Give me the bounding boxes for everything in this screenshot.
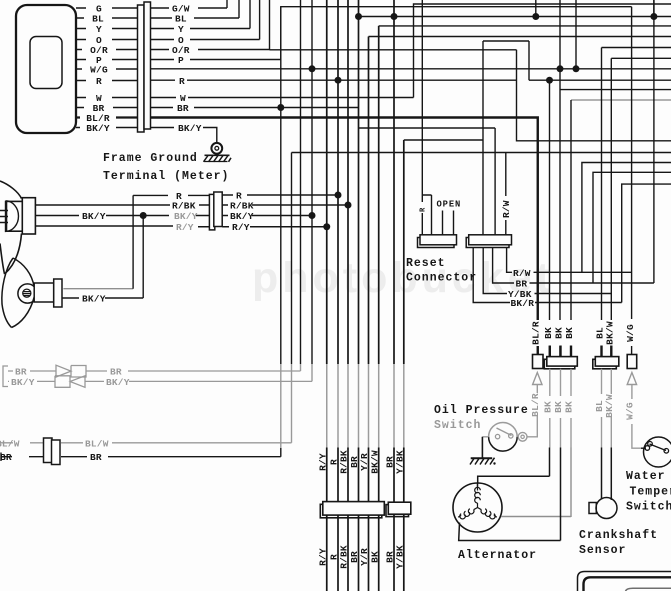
alternator wire bottom (459, 448, 561, 541)
svg-text:Terminal (Meter): Terminal (Meter) (103, 170, 229, 183)
connector J1 meter (double bar) (138, 2, 151, 132)
wire BR bottom row (1, 453, 281, 462)
gray sideways labels below connectors (530, 393, 636, 420)
svg-text:BK/Y: BK/Y (174, 211, 198, 222)
bundle column C5 Y/R x=368.5 (368, 37, 370, 365)
wire BK/Y to frame ground (151, 128, 217, 143)
junction box inner corner (626, 588, 671, 591)
bundle column C8 Y/BK x=403.8 (403, 140, 405, 364)
svg-text:BL/W: BL/W (85, 438, 109, 449)
wire W/G long row (151, 68, 671, 70)
wire O/R to riser (151, 0, 270, 50)
wire BK/Y gray row (8, 380, 55, 382)
svg-text:Y: Y (96, 24, 102, 35)
wire BR row y=107.5 (76, 107, 138, 109)
wire BK/Y headlight (35, 215, 209, 217)
wire R row y=80.5 (76, 80, 138, 82)
svg-text:OPEN: OPEN (437, 200, 462, 210)
svg-text:R/BK: R/BK (172, 201, 196, 212)
svg-text:BL: BL (175, 14, 187, 25)
diode D1 (56, 365, 86, 377)
svg-text:BK: BK (554, 327, 565, 339)
gray turn signal diode circuit (3, 365, 312, 387)
row y=184.1 riser BK/R (622, 184, 671, 302)
vertical x=653.9 (653, 0, 655, 17)
svg-text:BL/R: BL/R (530, 393, 541, 417)
turn signal connector (34, 279, 62, 307)
vertical x=312 (BK/Y riser) (311, 0, 313, 364)
svg-text:BK/W: BK/W (604, 394, 615, 418)
wire O row y=39.5 (76, 39, 138, 41)
2-pin connector BL BK/W (593, 357, 619, 369)
svg-text:Crankshaft: Crankshaft (579, 529, 658, 542)
svg-text:R/BK: R/BK (339, 450, 350, 474)
meter harness wires (left of connector) (76, 8, 138, 128)
connector pin stubs (550, 346, 612, 358)
bundle column C3 R/BK x=348 (347, 0, 349, 364)
svg-text:BK: BK (543, 327, 554, 339)
svg-text:R/BK: R/BK (230, 201, 254, 212)
gray row y=100 (571, 99, 671, 101)
svg-text:Oil Pressure: Oil Pressure (434, 404, 529, 417)
svg-text:BK/Y: BK/Y (106, 377, 130, 388)
alternator wire top to BK pin1 (478, 448, 550, 488)
wire BL/R row y=117.5 (76, 116, 138, 118)
bus row y=36.5 (369, 36, 671, 38)
wire BK/Y turn signal riser (62, 216, 144, 299)
vertical x=571 BK pin3 (570, 100, 572, 357)
vertical x=611.3 BK/W pin (611, 58, 671, 357)
bundle column C4 BR x=358.5 (358, 0, 360, 364)
wire G row y=8 (76, 7, 138, 9)
svg-text:BR: BR (90, 452, 102, 463)
svg-text:Water Se: Water Se (626, 470, 671, 483)
wire BK/Y row y=127.5 (76, 127, 138, 129)
3-pin connector BK BK BK (544, 357, 577, 369)
single connector W/G (627, 355, 637, 369)
wire R/Y headlight (35, 225, 209, 228)
svg-text:Connector: Connector (406, 272, 477, 285)
svg-text:Reset: Reset (406, 257, 446, 270)
wire R long row (151, 79, 671, 81)
wire BR gray row (8, 370, 56, 372)
svg-text:BK: BK (543, 401, 554, 413)
alternator (453, 483, 502, 532)
oil pressure switch (482, 423, 527, 459)
svg-text:Switch: Switch (434, 419, 481, 432)
reset connector open pins (443, 211, 454, 236)
6-pin connector body (320, 502, 384, 518)
headlight connector (7, 198, 36, 234)
bundle column C1 R/Y x=326.75 (327, 0, 404, 591)
svg-text:BK/Y: BK/Y (86, 123, 110, 134)
gray wire W/G below arrow (632, 385, 641, 449)
wire R/BK headlight (35, 204, 209, 206)
inline connector on BL/W BR rows (44, 438, 61, 465)
wire W row y=97.5 (76, 97, 138, 99)
wire W row riser to top (151, 4, 671, 98)
alternator wire right gray (501, 448, 571, 518)
gray wire BL/W row (0, 439, 292, 448)
gray wire BL/R down to oil switch (527, 369, 641, 448)
gray wires BK pins below connector (549, 369, 551, 448)
svg-text:R/Y: R/Y (232, 222, 250, 233)
svg-text:BL/W: BL/W (0, 438, 20, 449)
vertical x=549.5 BK pin1 (549, 80, 551, 357)
wire W/G row y=69 (76, 68, 138, 70)
2-pin connector body (386, 502, 411, 516)
junction box outer corner (578, 572, 671, 591)
wire Y to riser (151, 0, 251, 29)
crankshaft sensor (589, 448, 617, 519)
row y=152.5 (292, 152, 671, 154)
frame ground terminal symbol (204, 143, 232, 162)
svg-text:BR: BR (177, 103, 189, 114)
reset connector body 1 (418, 235, 457, 248)
bundle column C6 BK/W x=378.7 (378, 26, 380, 364)
bus row y=25.9 (379, 25, 671, 27)
svg-text:BK: BK (564, 401, 575, 413)
bundle column C2 R x=338 (337, 0, 339, 364)
svg-text:Sensor: Sensor (579, 544, 626, 557)
oil switch ground (470, 458, 495, 465)
svg-text:BK/W: BK/W (605, 321, 616, 345)
bundle sideways labels below connector (318, 545, 406, 569)
svg-text:R/Y: R/Y (318, 548, 329, 566)
wire BL/R thick to mid connector (151, 118, 538, 355)
fan wire R/W from connector2 (507, 248, 632, 273)
vertical x=300.5 (BR gray riser) (300, 0, 302, 364)
fan wire Y/BK from connector2 (483, 248, 611, 294)
wire G/W to riser (151, 0, 671, 143)
svg-text:R: R (420, 207, 428, 212)
svg-text:P: P (178, 55, 184, 66)
svg-text:W/G: W/G (625, 402, 636, 420)
row y=162.5 riser R/W (582, 163, 671, 273)
meter wire labels left column (86, 4, 110, 135)
right-side wire labels of meter connector (172, 4, 202, 135)
single connector BL/R (533, 355, 544, 369)
bundle column C7 BR x=394 (393, 0, 395, 364)
headlight reflector housing (0, 181, 22, 274)
svg-text:BL: BL (92, 14, 104, 25)
wire BR meter row (151, 107, 359, 109)
svg-text:R/BK: R/BK (339, 545, 350, 569)
svg-text:BK/Y: BK/Y (178, 123, 202, 134)
gray mating arrow BL/R (533, 373, 542, 385)
bridge wire C8 to reset connector2 (404, 41, 483, 235)
wire P riser and top run (151, 7, 632, 60)
fan wire BK/R from connector2 (473, 248, 622, 303)
svg-text:Alternator: Alternator (458, 549, 537, 562)
wire R row (35, 195, 209, 288)
wire P row y=59.5 (76, 59, 138, 61)
wire Y row y=28.5 (76, 28, 138, 30)
fan wire BR from connector2 (493, 0, 654, 283)
sideways labels above mid connectors (533, 320, 616, 346)
svg-text:BK: BK (553, 401, 564, 413)
svg-text:BK/Y: BK/Y (11, 377, 35, 388)
svg-text:BK: BK (369, 551, 380, 563)
svg-text:R: R (96, 76, 102, 87)
vertical x=631.6 W/G wire (631, 7, 633, 355)
wires right of 4-pin connector (222, 195, 348, 227)
svg-text:BR: BR (516, 279, 528, 290)
vertical stub x=576 (575, 0, 577, 69)
svg-text:BR: BR (15, 367, 27, 378)
gray wires BL and BK/W below connector (601, 369, 603, 448)
vertical stub x=535.8 (535, 0, 537, 17)
svg-text:BR: BR (0, 452, 12, 463)
bundle gray band segments (327, 364, 404, 448)
junction box middle corner (584, 577, 671, 591)
svg-text:BK/Y: BK/Y (82, 211, 106, 222)
water temperature switch (641, 437, 671, 467)
svg-text:Temperatu: Temperatu (630, 486, 671, 499)
svg-text:W/G: W/G (90, 65, 108, 76)
headlight bulb (0, 201, 18, 232)
reset connector jumper loop wire x=422.3 (422, 0, 431, 235)
svg-text:R/Y: R/Y (318, 453, 329, 471)
left bracket (3, 366, 8, 387)
svg-text:W/G: W/G (625, 324, 636, 342)
jog wire y=41 (483, 41, 529, 80)
vertical x=601.5 BL pin (602, 48, 671, 357)
svg-text:Y: Y (178, 24, 184, 35)
wire BL to riser (151, 0, 240, 18)
turn signal bulb (18, 284, 37, 303)
vertical P/BR bus x=280.8 (280, 7, 282, 457)
bridge wire C4 to reset connector2 (359, 128, 496, 235)
svg-text:Frame Ground: Frame Ground (103, 152, 198, 165)
svg-text:R: R (179, 76, 185, 87)
svg-text:R/Y: R/Y (176, 222, 194, 233)
wire BL row y=18 (76, 17, 138, 19)
vertical x=291.5 (BL/W riser) (291, 153, 293, 365)
svg-text:Y/BK: Y/BK (395, 545, 406, 569)
svg-text:BK: BK (564, 327, 575, 339)
row y=172.3 riser BR (593, 172, 671, 283)
reset connector body 2 (466, 235, 511, 248)
svg-text:BK/Y: BK/Y (230, 211, 254, 222)
bundle sideways labels above 6-pin connector (318, 450, 406, 474)
svg-text:Y/BK: Y/BK (395, 450, 406, 474)
svg-text:BR: BR (110, 367, 122, 378)
svg-text:BK/R: BK/R (511, 298, 535, 309)
wire from turn signal to R riser (63, 288, 133, 290)
bus row y=16.5 (BR bus) (359, 16, 671, 18)
alternator stator coils (458, 487, 497, 519)
4-pin connector (headlight harness) (209, 192, 222, 230)
meter connector housing (instrument cluster) (16, 5, 76, 133)
R/W pin wire with sideways label (505, 153, 507, 235)
wire O to riser (151, 0, 260, 40)
svg-text:BK/W: BK/W (369, 450, 380, 474)
vertical x=560 BK pin2 (559, 0, 561, 357)
diode D2 (55, 376, 85, 388)
svg-text:R/W: R/W (501, 200, 512, 218)
svg-text:BL/R: BL/R (531, 321, 542, 345)
jog wire y=50.3 (270, 50, 671, 141)
gray mating arrow W/G (627, 373, 636, 385)
svg-text:BK/Y: BK/Y (82, 294, 106, 305)
turn signal housing (2, 258, 34, 328)
svg-text:Switch: Switch (626, 501, 671, 514)
wire O/R row y=49.5 (76, 49, 138, 51)
row y=89.6 (560, 89, 671, 91)
svg-text:R/W: R/W (513, 268, 531, 279)
